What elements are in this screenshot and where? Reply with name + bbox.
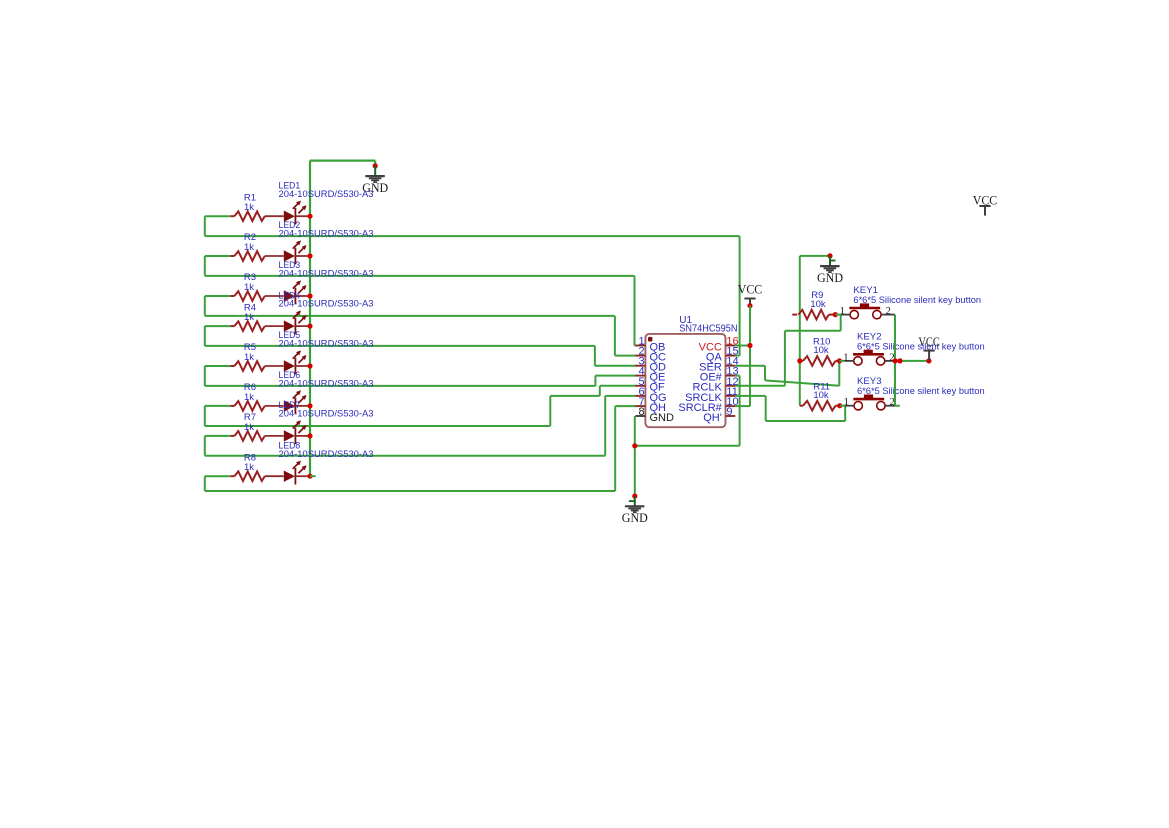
node GND symbol junction <box>632 494 637 499</box>
resistor R3 <box>231 295 235 297</box>
wire row3 loop to QC pin2 <box>614 316 616 356</box>
wire bus top to GND <box>310 160 375 162</box>
U1 pin 9 (QH') <box>726 415 736 417</box>
U1 pin 7 (QH) <box>635 405 645 407</box>
wire LED cathode bus vertical <box>309 161 311 477</box>
svg-text:1k: 1k <box>244 392 254 403</box>
wire SRCLR# pin10 to VCC line <box>735 405 750 407</box>
wire row5 loop to QE pin4 <box>594 376 596 386</box>
svg-text:204-10SURD/S530-A3: 204-10SURD/S530-A3 <box>279 379 374 390</box>
node R9/KEY1 junction <box>833 312 838 317</box>
wire R9 to KEY1 pin1 <box>835 314 841 316</box>
resistor R2 <box>231 255 235 257</box>
U1 pin 14 (SER) <box>726 365 736 367</box>
ground GND keys area <box>829 256 831 266</box>
key button KEY1 contact circles <box>850 310 858 318</box>
key button KEY2 pin stubs <box>845 360 854 362</box>
wire R11 to KEY3 pin1 <box>840 405 845 407</box>
svg-text:2: 2 <box>886 305 892 317</box>
resistor R10 10k <box>800 360 803 362</box>
node keys GND junction <box>827 253 832 258</box>
node LED4 cathode junction <box>307 324 312 329</box>
resistor R11 10k <box>800 405 803 407</box>
LED2 204-10SURD/S530-A3 <box>265 255 284 257</box>
key button KEY3 contact circles <box>854 402 862 410</box>
svg-text:204-10SURD/S530-A3: 204-10SURD/S530-A3 <box>279 339 374 350</box>
svg-text:204-10SURD/S530-A3: 204-10SURD/S530-A3 <box>279 449 374 460</box>
U1 pin 8 (GND) <box>635 415 645 417</box>
wire row 8 input loop <box>205 475 231 477</box>
resistor R9 10k <box>792 314 797 316</box>
LED5 204-10SURD/S530-A3 <box>265 365 284 367</box>
node LED5 cathode junction <box>307 363 312 368</box>
key button KEY3 pin stubs <box>845 405 854 407</box>
svg-text:6*6*5 Silicone silent key butt: 6*6*5 Silicone silent key button <box>857 386 985 397</box>
resistor R5 <box>231 365 235 367</box>
svg-text:204-10SURD/S530-A3: 204-10SURD/S530-A3 <box>279 409 374 420</box>
svg-text:6*6*5 Silicone silent key butt: 6*6*5 Silicone silent key button <box>853 295 981 306</box>
wire row6 loop to QF pin5 <box>549 396 551 426</box>
U1 pin 3 (QD) <box>635 365 645 367</box>
svg-text:204-10SURD/S530-A3: 204-10SURD/S530-A3 <box>279 269 374 280</box>
node R10/KEY2 junction <box>837 358 842 363</box>
wire row4 loop to QD pin3 <box>594 346 596 366</box>
LED3 204-10SURD/S530-A3 <box>265 295 284 297</box>
node LED6 cathode junction <box>307 403 312 408</box>
svg-text:SN74HC595N: SN74HC595N <box>679 323 737 334</box>
wire row 6 input loop <box>205 405 231 407</box>
wire KEY2 pin2 to VCC <box>895 360 929 362</box>
svg-text:8: 8 <box>638 406 644 418</box>
node LED2 cathode junction <box>307 253 312 258</box>
resistor R1 <box>231 215 235 217</box>
U1 pin 1 (QB) <box>635 345 645 347</box>
svg-text:VCC: VCC <box>738 282 763 296</box>
svg-text:1k: 1k <box>244 352 254 363</box>
svg-text:1: 1 <box>843 396 849 408</box>
svg-text:1k: 1k <box>244 242 254 253</box>
wire OE# pin13 to GND net <box>735 375 739 377</box>
wire row8 loop to QH pin7 <box>614 406 616 491</box>
svg-text:204-10SURD/S530-A3: 204-10SURD/S530-A3 <box>279 229 374 240</box>
U1 pin 11 (SRCLK) <box>726 395 736 397</box>
resistor R4 <box>231 325 235 327</box>
svg-text:1: 1 <box>839 305 845 317</box>
U1 pin 15 (QA) <box>726 355 736 357</box>
node OE#/GND junction <box>632 443 637 448</box>
ground GND bottom <box>634 496 636 506</box>
wire row 1 input loop <box>205 215 231 217</box>
wire GND pin8 down <box>634 416 636 496</box>
wire SER pin14 to KEY2 node <box>735 365 765 367</box>
key button KEY3 actuator bar <box>853 398 884 401</box>
node VCC wire top <box>747 303 752 308</box>
LED7 204-10SURD/S530-A3 <box>265 435 284 437</box>
svg-text:GND: GND <box>817 271 843 285</box>
key button KEY1 actuator bar <box>849 307 880 310</box>
wire row 5 input loop <box>205 365 231 367</box>
resistor R7 <box>231 435 235 437</box>
wire keys GND rail <box>800 255 830 257</box>
U1 pin 16 (VCC) <box>726 345 736 347</box>
svg-text:10k: 10k <box>810 299 826 310</box>
key button KEY2 actuator bar <box>853 353 884 356</box>
wire row 7 input loop <box>205 435 231 437</box>
wire row7 loop to QG pin6 <box>604 396 606 456</box>
node LED8 cathode junction <box>307 474 312 479</box>
wire R10 to KEY2 pin1 <box>840 360 845 362</box>
node LED3 cathode junction <box>307 293 312 298</box>
U1 pin 4 (QE) <box>635 375 645 377</box>
wire VCC vertical to pin16 and SRCLR# <box>749 306 751 406</box>
node KEY2 pin2 junctions <box>893 358 898 363</box>
node LED1 cathode junction <box>307 214 312 219</box>
wire row 2 input loop <box>205 255 231 257</box>
node pin16 VCC junction <box>747 343 752 348</box>
svg-text:1k: 1k <box>244 282 254 293</box>
wire row 3 input loop <box>205 295 231 297</box>
wire keys pin2 common vertical <box>894 315 896 406</box>
op-amp/IC U1 SN74HC595N body <box>645 334 725 427</box>
U1 pin 6 (QG) <box>635 395 645 397</box>
LED6 204-10SURD/S530-A3 <box>265 405 284 407</box>
svg-text:204-10SURD/S530-A3: 204-10SURD/S530-A3 <box>279 299 374 310</box>
wire row2 loop to QB pin1 <box>634 276 636 346</box>
svg-text:GND: GND <box>650 412 675 424</box>
svg-text:1k: 1k <box>244 462 254 473</box>
svg-text:GND: GND <box>622 511 648 525</box>
node R11/KEY3 junction <box>837 403 842 408</box>
LED8 204-10SURD/S530-A3 <box>265 475 284 477</box>
svg-text:10k: 10k <box>813 345 829 356</box>
svg-text:204-10SURD/S530-A3: 204-10SURD/S530-A3 <box>279 189 374 200</box>
node LED7 cathode junction <box>307 433 312 438</box>
svg-text:QH': QH' <box>703 412 722 424</box>
wire RCLK pin12 to KEY1 node <box>735 385 785 387</box>
LED1 204-10SURD/S530-A3 <box>265 215 284 217</box>
svg-text:1k: 1k <box>244 312 254 323</box>
ground GND top-left <box>374 166 376 176</box>
svg-text:1k: 1k <box>244 202 254 213</box>
U1 pin 2 (QC) <box>635 355 645 357</box>
U1 pin 10 (SRCLR#) <box>726 405 736 407</box>
key button KEY1 pin stubs <box>841 314 850 316</box>
wire row 4 input loop <box>205 325 231 327</box>
key button KEY2 contact circles <box>854 357 862 365</box>
resistor R8 <box>231 475 235 477</box>
U1 pin 5 (QF) <box>635 385 645 387</box>
resistor R6 <box>231 405 235 407</box>
node bus/GND junction <box>373 163 378 168</box>
svg-text:1k: 1k <box>244 422 254 433</box>
LED4 204-10SURD/S530-A3 <box>265 325 284 327</box>
svg-text:VCC: VCC <box>918 335 940 349</box>
wire VCC to pin16 <box>735 345 750 347</box>
svg-text:9: 9 <box>726 406 732 418</box>
U1 pin 13 (OE#) <box>726 375 736 377</box>
svg-text:10k: 10k <box>813 390 829 401</box>
wire SRCLK pin11 to KEY3 node <box>735 395 765 397</box>
node R10 left on GND rail <box>797 358 802 363</box>
U1 pin 12 (RCLK) <box>726 385 736 387</box>
svg-text:1: 1 <box>843 351 849 363</box>
U1 pin-1 marker <box>648 337 652 342</box>
wire row1 loop to QA pin15 <box>739 236 741 356</box>
